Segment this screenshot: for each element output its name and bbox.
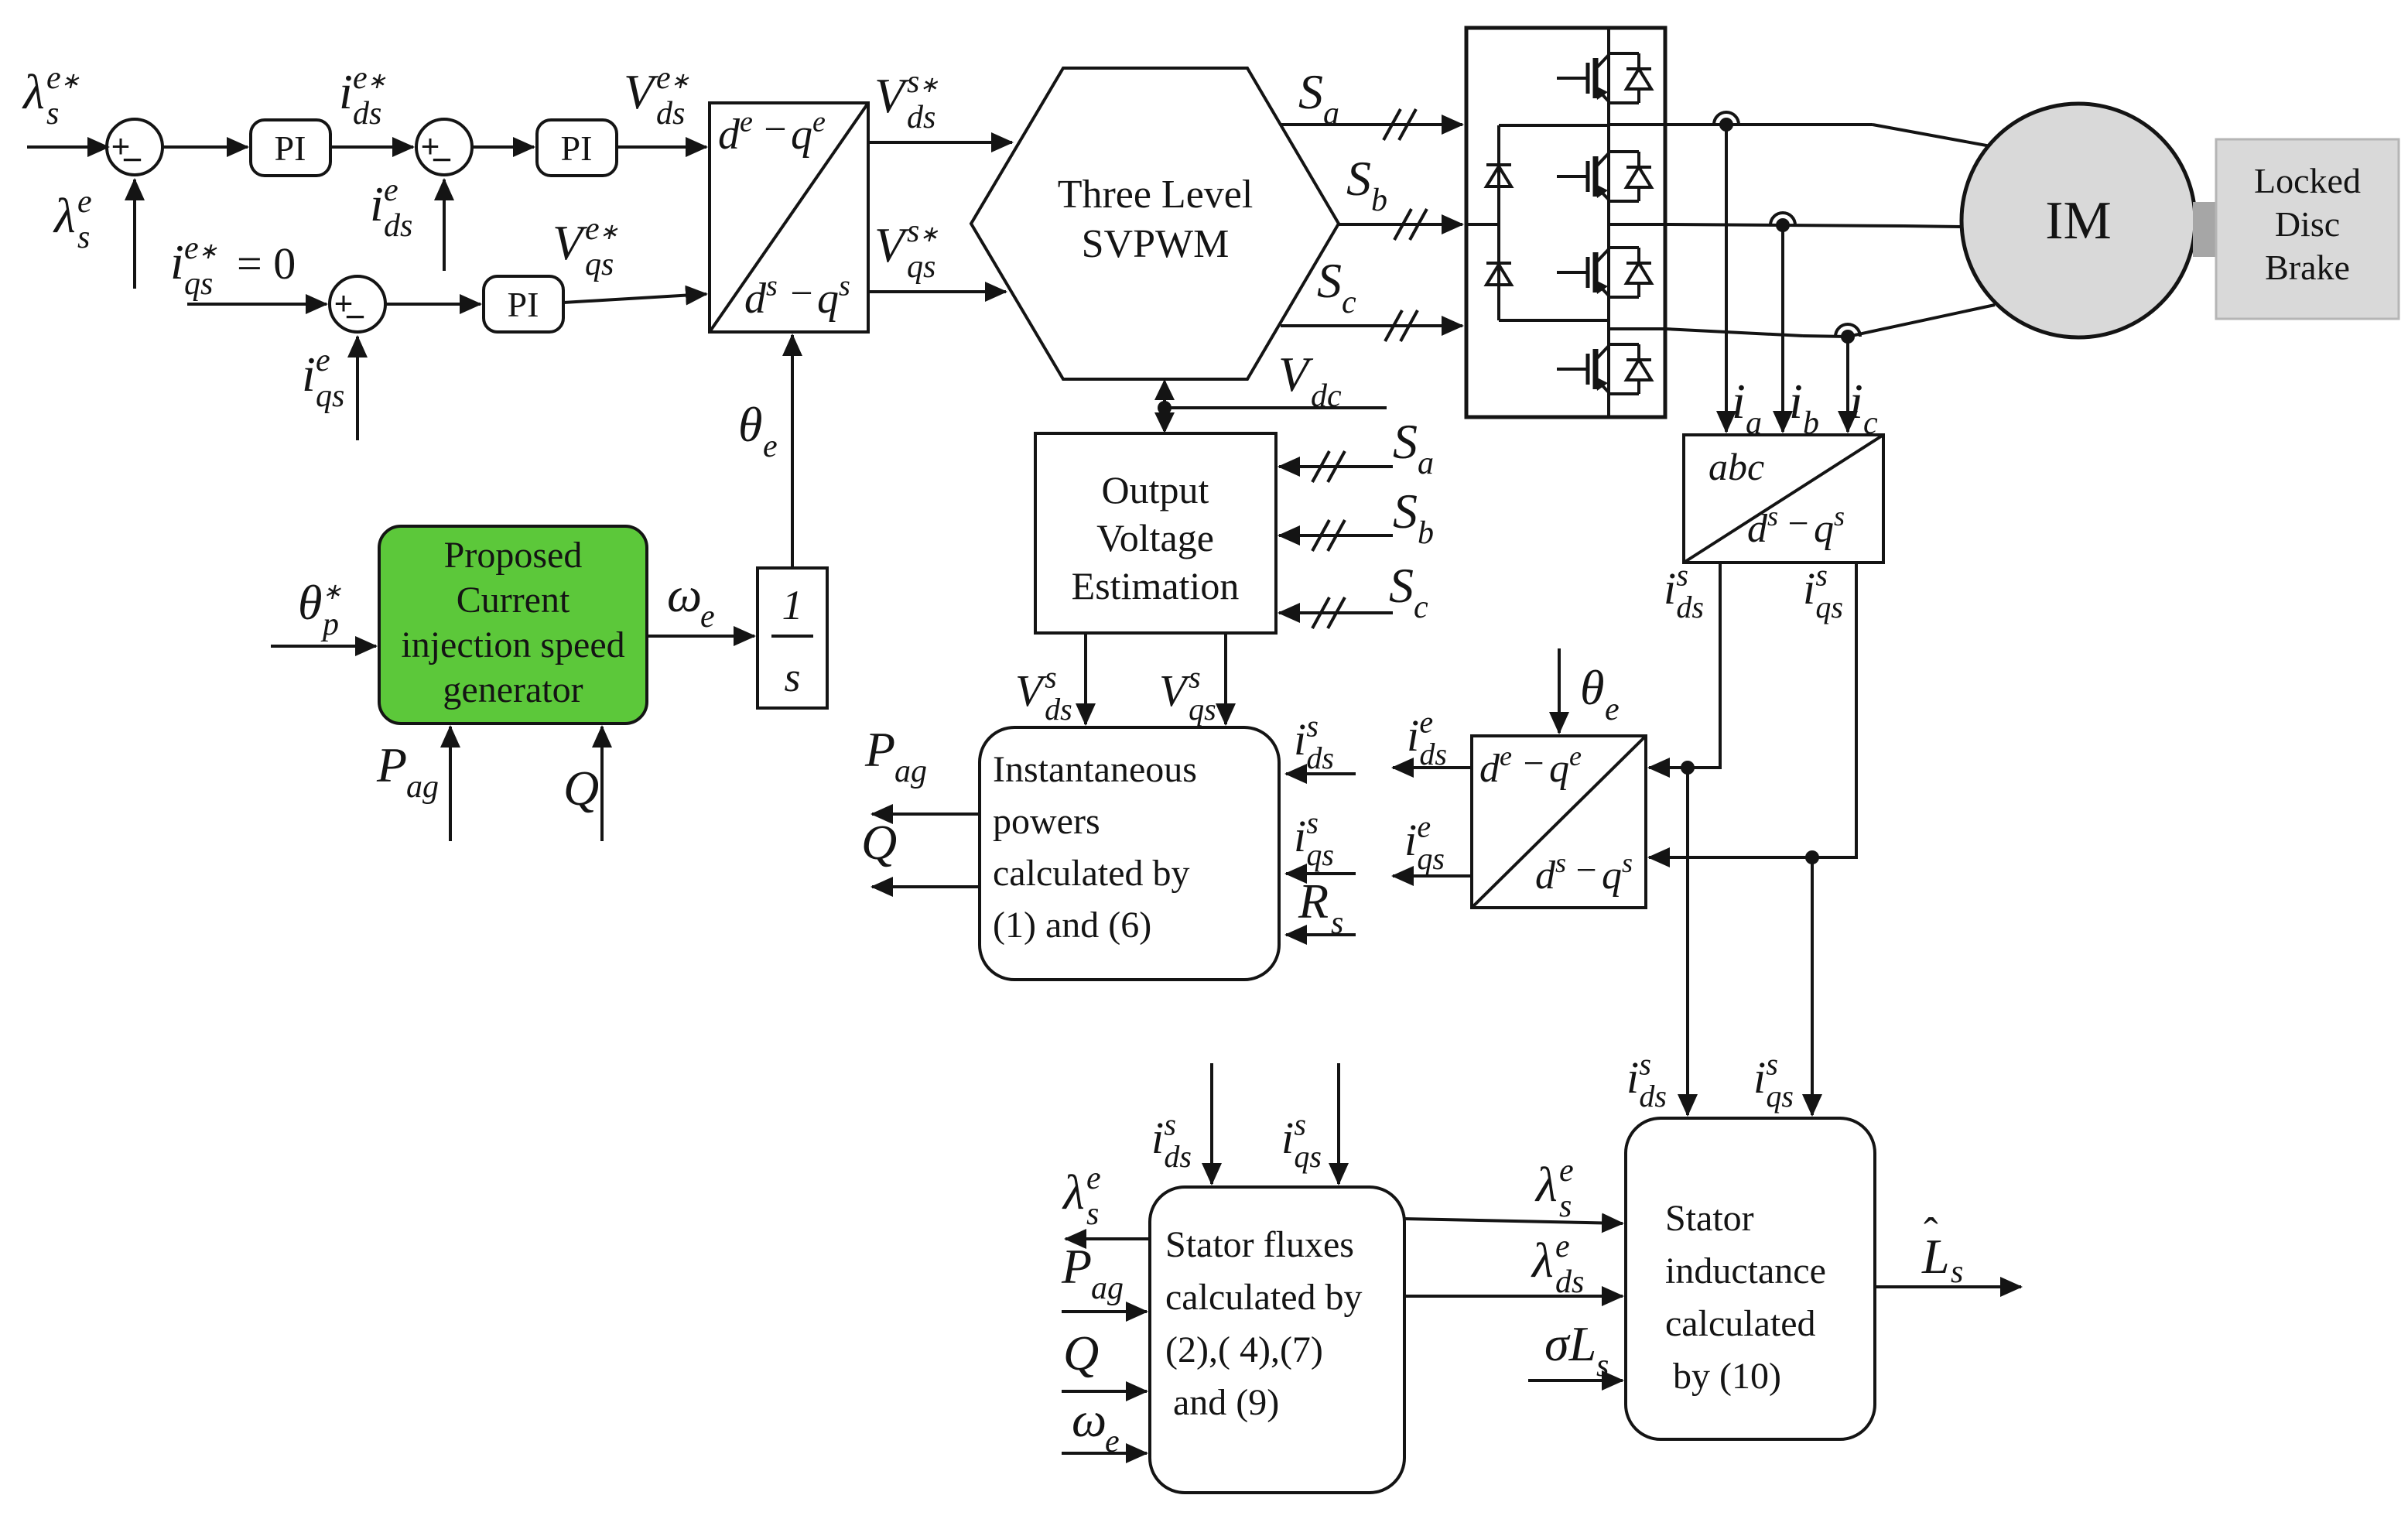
wire inverter output c inside	[1609, 327, 1665, 330]
svg-text:s: s	[1086, 1196, 1099, 1232]
wire lambda ref into summing junction 1	[27, 145, 108, 149]
svg-text:i: i	[302, 347, 316, 402]
transform block abc to d^s-q^s	[1684, 435, 1883, 563]
svg-text:i: i	[1664, 563, 1676, 614]
svg-text:Q: Q	[1063, 1326, 1099, 1380]
svg-text:s: s	[1815, 557, 1828, 592]
transistor Q2 IGBT with diode	[1557, 175, 1588, 178]
svg-text:λ: λ	[22, 64, 45, 119]
wire i_qs_s into fluxes box	[1337, 1063, 1340, 1184]
svg-text:ds: ds	[1639, 1079, 1667, 1114]
PI controller PI3	[484, 276, 563, 332]
svg-text:q: q	[1549, 747, 1569, 791]
svg-text:ˆ: ˆ	[1924, 1209, 1938, 1257]
svg-text:qs: qs	[184, 266, 213, 302]
wire omega_e into fluxes box	[1062, 1452, 1147, 1455]
svg-text:e: e	[700, 599, 715, 635]
svg-text:P: P	[376, 737, 407, 792]
svg-text:λ: λ	[1531, 1233, 1554, 1288]
transistor Q3 IGBT with diode	[1557, 271, 1588, 274]
wire i_qs_s down to stator inductance box	[1811, 857, 1814, 1115]
svg-text:−: −	[1575, 850, 1596, 891]
svg-text:S: S	[1393, 414, 1418, 469]
svg-text:s: s	[1951, 1254, 1963, 1290]
svg-text:S: S	[1393, 484, 1418, 539]
svg-text:Locked: Locked	[2254, 161, 2361, 200]
svg-text:IM: IM	[2045, 191, 2112, 251]
svg-text:λ: λ	[1534, 1157, 1558, 1212]
svg-text:qs: qs	[1294, 1139, 1322, 1174]
wire PI2 to dq transform box A	[617, 145, 706, 149]
wire phase a	[1665, 123, 1873, 126]
svg-text:1: 1	[782, 582, 803, 628]
svg-text:PI: PI	[508, 285, 539, 324]
block Stator fluxes	[1150, 1187, 1404, 1493]
svg-text:s: s	[766, 269, 778, 302]
wire V_qs_s into powers box	[1224, 633, 1227, 724]
block Instantaneous powers	[980, 727, 1279, 980]
wire V_dc label line	[1165, 406, 1387, 409]
machine IM induction motor	[1962, 104, 2195, 337]
svg-text:i: i	[1789, 374, 1803, 429]
svg-text:S: S	[1298, 64, 1323, 119]
wire iqs ref into summing junction 3	[187, 303, 327, 306]
svg-text:calculated by: calculated by	[993, 853, 1190, 894]
svg-text:ag: ag	[894, 754, 927, 789]
block Proposed Current injection speed generator (green)	[379, 526, 647, 724]
wire L_s hat out	[1875, 1285, 2021, 1288]
wire omega_e green box to 1/s	[647, 635, 754, 638]
svg-text:q: q	[1602, 854, 1622, 898]
svg-text:−: −	[432, 139, 453, 180]
clamp diode D5	[1486, 166, 1511, 186]
svg-text:Output: Output	[1102, 468, 1209, 511]
svg-text:ds: ds	[907, 100, 935, 135]
wire phase c	[1665, 329, 1803, 336]
svg-text:SVPWM: SVPWM	[1082, 222, 1230, 266]
wire i_qs_e out of box B	[1393, 874, 1472, 878]
svg-text:P: P	[864, 722, 895, 777]
wire lambda feedback up into SJ1	[133, 180, 136, 289]
svg-text:Instantaneous: Instantaneous	[993, 749, 1197, 790]
svg-text:d: d	[1535, 854, 1556, 898]
wire clamp mid link	[1466, 223, 1499, 226]
svg-text:i: i	[1626, 1052, 1639, 1103]
svg-text:s: s	[1766, 1046, 1778, 1081]
svg-text:i: i	[1849, 374, 1863, 429]
svg-text:s: s	[1306, 708, 1319, 743]
wire clamp diode chain	[1497, 125, 1500, 320]
svg-text:−: −	[764, 108, 786, 152]
svg-text:s: s	[1676, 557, 1688, 592]
svg-text:s: s	[839, 269, 850, 302]
svg-text:i: i	[1294, 811, 1306, 861]
svg-text:i: i	[1404, 815, 1417, 865]
current sensor a	[1714, 112, 1739, 125]
wire clamp top link	[1499, 124, 1609, 127]
wire phase b to IM	[1903, 226, 1961, 227]
svg-text:−: −	[1787, 503, 1808, 544]
wire V_ds_s into powers box	[1084, 633, 1087, 724]
current sensor b	[1770, 213, 1795, 225]
junction V_dc	[1158, 401, 1172, 415]
svg-text:Estimation: Estimation	[1072, 564, 1240, 607]
svg-text:−: −	[1523, 743, 1544, 784]
svg-text:e: e	[77, 184, 92, 220]
svg-text:d: d	[744, 275, 767, 323]
svg-text:e: e	[384, 173, 398, 208]
svg-text:s: s	[1639, 1046, 1651, 1081]
svg-text:Proposed: Proposed	[444, 535, 583, 576]
svg-text:−: −	[790, 272, 812, 316]
wire hexagon S_b to inverter	[1339, 223, 1462, 226]
svg-text:s: s	[1555, 847, 1566, 878]
svg-text:PI: PI	[275, 128, 306, 168]
svg-text:s: s	[1622, 847, 1633, 878]
wire S_b into OVE	[1279, 534, 1393, 537]
svg-text:= 0: = 0	[237, 238, 296, 289]
wire PI1 to summing junction 2	[330, 145, 413, 149]
transistor Q1 IGBT with diode	[1557, 77, 1588, 80]
summing junction SJ3	[330, 276, 385, 332]
svg-text:p: p	[320, 607, 339, 642]
svg-text:e: e	[1569, 741, 1582, 771]
svg-text:s: s	[1834, 501, 1845, 532]
svg-text:e: e	[763, 429, 778, 464]
svg-text:a: a	[1323, 96, 1339, 132]
wire i_b down to abc box	[1781, 225, 1784, 432]
wire hexagon S_c to inverter	[1281, 324, 1462, 327]
wire clamp bottom link	[1499, 319, 1609, 322]
svg-text:ag: ag	[1091, 1271, 1124, 1306]
svg-text:qs: qs	[316, 378, 344, 414]
wire i_qs_s from abc to box B	[1649, 563, 1856, 857]
transistor Q4 IGBT with diode	[1557, 368, 1588, 371]
wire box A to hexagon upper	[868, 141, 1012, 144]
wire S_c into OVE	[1279, 611, 1393, 614]
svg-text:−: −	[122, 139, 143, 180]
summing junction SJ1	[107, 119, 162, 175]
wire PI3 to dq transform box A lower input	[563, 294, 706, 303]
svg-text:i: i	[1753, 1052, 1766, 1103]
wire i_a down to abc box	[1725, 125, 1728, 432]
svg-text:i: i	[1732, 374, 1746, 429]
wire inverter output a inside	[1609, 123, 1665, 126]
junction i_ds_s	[1681, 761, 1695, 775]
svg-text:Q: Q	[563, 761, 599, 816]
svg-text:ag: ag	[406, 769, 439, 805]
block three-level inverter outline	[1466, 28, 1665, 417]
wire SJ1 to PI1	[162, 145, 248, 149]
svg-text:q: q	[817, 275, 839, 323]
svg-text:and (9): and (9)	[1173, 1382, 1279, 1423]
svg-text:qs: qs	[1815, 590, 1843, 624]
transform block B d^e-q^e from d^s-q^s	[1472, 736, 1646, 908]
svg-text:b: b	[1371, 183, 1387, 218]
svg-text:ds: ds	[1306, 741, 1334, 775]
svg-text:qs: qs	[1417, 841, 1445, 876]
svg-text:s: s	[1767, 501, 1778, 532]
svg-text:s: s	[46, 96, 59, 132]
svg-text:s: s	[1189, 659, 1201, 694]
wire Q out	[872, 885, 980, 888]
svg-text:powers: powers	[993, 801, 1100, 842]
svg-text:ds: ds	[1045, 692, 1072, 727]
wire S_a into OVE	[1279, 465, 1393, 468]
svg-text:s: s	[1559, 1189, 1572, 1224]
svg-text:e: e	[1500, 741, 1512, 771]
svg-text:a: a	[1418, 446, 1434, 481]
svg-text:e: e	[1086, 1161, 1101, 1196]
svg-text:s: s	[1596, 1348, 1609, 1384]
svg-text:by (10): by (10)	[1673, 1356, 1781, 1397]
svg-text:calculated by: calculated by	[1165, 1277, 1363, 1318]
junction i_qs_s	[1805, 850, 1819, 864]
svg-text:c: c	[1342, 285, 1356, 320]
svg-text:e: e	[316, 343, 330, 378]
svg-text:e: e	[1419, 704, 1433, 739]
svg-text:generator: generator	[443, 669, 583, 710]
PI controller PI1	[251, 120, 330, 176]
svg-text:Voltage: Voltage	[1096, 516, 1214, 559]
svg-text:d: d	[1479, 747, 1500, 791]
svg-text:b: b	[1418, 515, 1434, 551]
wire i_ds_e up into SJ2	[443, 180, 446, 271]
block integrator 1/s	[758, 568, 827, 708]
wire P_ag out	[872, 813, 980, 816]
svg-text:i: i	[1294, 714, 1306, 765]
svg-text:(2),( 4),(7): (2),( 4),(7)	[1165, 1329, 1323, 1370]
block Three Level SVPWM hexagon	[971, 68, 1339, 379]
summing junction SJ2	[416, 119, 472, 175]
svg-text:s: s	[1164, 1107, 1176, 1141]
svg-text:q: q	[791, 111, 812, 159]
svg-text:ds: ds	[1164, 1139, 1192, 1174]
svg-text:qs: qs	[1189, 692, 1216, 727]
svg-text:i: i	[1803, 563, 1815, 614]
svg-text:S: S	[1389, 558, 1414, 613]
wire SJ3 to PI3	[385, 303, 481, 306]
svg-text:c: c	[1414, 590, 1428, 625]
svg-text:Q: Q	[861, 815, 897, 870]
block Stator inductance	[1626, 1118, 1875, 1439]
wire P_ag up into green box	[449, 727, 452, 841]
wire sigma L_s into inductance box	[1528, 1379, 1623, 1382]
svg-text:σL: σL	[1544, 1316, 1596, 1371]
svg-text:s: s	[784, 654, 800, 700]
svg-text:θ: θ	[738, 397, 762, 452]
wire SJ2 to PI2	[472, 145, 534, 149]
wire box A to hexagon lower	[868, 290, 1006, 293]
svg-text:PI: PI	[561, 128, 593, 168]
svg-text:S: S	[1346, 151, 1371, 206]
svg-text:inductance: inductance	[1665, 1250, 1826, 1291]
svg-text:Brake: Brake	[2265, 248, 2350, 287]
svg-text:d: d	[1747, 507, 1768, 551]
svg-text:injection speed: injection speed	[401, 624, 624, 665]
wire i_ds_e out of box B	[1393, 766, 1472, 769]
block Locked Disc Brake	[2216, 139, 2399, 319]
wire lambda_s_e out of fluxes box	[1065, 1237, 1150, 1240]
svg-text:i: i	[370, 176, 384, 231]
svg-text:abc: abc	[1709, 445, 1764, 488]
svg-text:d: d	[718, 111, 741, 159]
svg-text:∗: ∗	[323, 580, 341, 604]
svg-text:S: S	[1317, 253, 1342, 308]
wire V_dc double arrow between hexagon and OVE box	[1163, 381, 1166, 431]
wire phase c to IM	[1848, 305, 1995, 337]
wire hexagon S_a to inverter	[1281, 123, 1462, 126]
svg-text:θ: θ	[298, 575, 322, 630]
clamp diode D6	[1486, 265, 1511, 285]
svg-text:P: P	[1061, 1239, 1092, 1294]
wire Q up into green box	[600, 727, 604, 841]
svg-text:e: e	[1559, 1153, 1574, 1189]
svg-text:qs: qs	[585, 247, 614, 282]
svg-text:ds: ds	[353, 96, 381, 132]
svg-text:i: i	[1151, 1113, 1164, 1163]
svg-text:λ: λ	[53, 188, 76, 243]
svg-text:ds: ds	[384, 208, 412, 244]
svg-text:i: i	[1407, 710, 1419, 761]
svg-text:ω: ω	[667, 567, 702, 622]
wire P_ag into fluxes box	[1062, 1310, 1147, 1313]
transform block A d^e-q^e to d^s-q^s	[710, 103, 868, 332]
svg-text:Three Level: Three Level	[1058, 173, 1254, 217]
svg-text:s: s	[1306, 805, 1319, 840]
svg-text:i: i	[339, 64, 353, 119]
svg-text:q: q	[1814, 507, 1834, 551]
wire theta_p* into green box	[271, 645, 376, 648]
svg-text:e: e	[812, 105, 826, 138]
wire i_ds_s into fluxes box	[1210, 1063, 1213, 1184]
current sensor c	[1835, 324, 1860, 337]
svg-text:s: s	[1045, 659, 1057, 694]
svg-text:calculated: calculated	[1665, 1303, 1816, 1344]
svg-text:i: i	[170, 234, 184, 289]
svg-text:(1) and (6): (1) and (6)	[993, 905, 1151, 946]
svg-text:ds: ds	[1676, 590, 1704, 624]
wire lambda_ds_e to inductance box	[1404, 1295, 1623, 1298]
svg-text:e: e	[1417, 809, 1431, 843]
wire 1/s output theta_e up into box A	[791, 335, 794, 568]
svg-text:Stator fluxes: Stator fluxes	[1165, 1224, 1354, 1265]
wire phase b	[1665, 224, 1903, 226]
wire R_s into powers box	[1286, 933, 1356, 936]
svg-text:qs: qs	[1306, 837, 1334, 872]
wire i_ds_s into powers box	[1286, 772, 1356, 775]
wire lambda_s_e to inductance box	[1404, 1219, 1623, 1223]
wire inverter output b inside	[1609, 223, 1665, 226]
wire i_qs_e up into SJ3	[356, 337, 359, 440]
svg-text:dc: dc	[1311, 378, 1342, 414]
wire i_c down to abc box	[1846, 337, 1849, 432]
svg-text:e: e	[1605, 692, 1620, 727]
shaft coupling	[2193, 202, 2216, 257]
svg-text:λ: λ	[1062, 1165, 1085, 1220]
svg-text:Disc: Disc	[2275, 204, 2340, 244]
wire phase a to IM	[1873, 125, 1995, 147]
PI controller PI2	[537, 120, 617, 176]
svg-text:−: −	[345, 296, 366, 337]
svg-text:ω: ω	[1072, 1392, 1107, 1447]
svg-text:s: s	[1294, 1107, 1306, 1141]
svg-text:i: i	[1281, 1113, 1294, 1163]
wire i_ds_s from abc to box B	[1649, 563, 1720, 768]
svg-text:Stator: Stator	[1665, 1198, 1754, 1239]
svg-text:R: R	[1298, 874, 1329, 929]
block Output Voltage Estimation	[1035, 433, 1276, 633]
wire Q into fluxes box	[1062, 1390, 1147, 1393]
svg-text:e: e	[740, 105, 753, 138]
svg-text:θ: θ	[1580, 660, 1604, 715]
svg-text:Current: Current	[457, 580, 570, 621]
wire i_ds_s down to stator inductance box	[1686, 768, 1689, 1115]
wire inverter DC bus	[1607, 28, 1610, 417]
wire i_qs_s into powers box	[1286, 872, 1356, 875]
svg-text:ds: ds	[656, 96, 685, 132]
wire theta_e into box B	[1558, 648, 1561, 733]
svg-text:qs: qs	[1766, 1079, 1794, 1114]
svg-text:qs: qs	[907, 249, 935, 285]
svg-text:e: e	[1555, 1229, 1570, 1264]
svg-text:s: s	[77, 220, 90, 255]
